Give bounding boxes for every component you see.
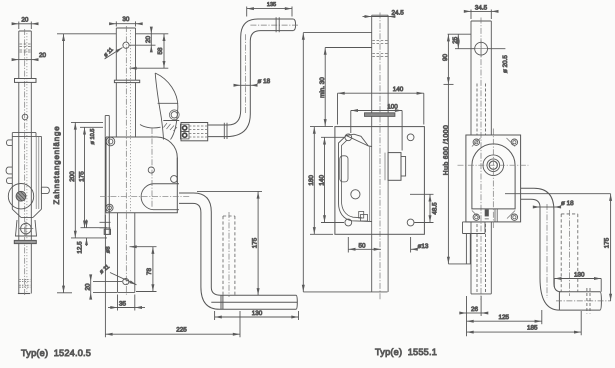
bar dotted line — [130, 30, 132, 212]
svg-text:30: 30 — [122, 16, 130, 23]
svg-text:Hub 600 /1000: Hub 600 /1000 — [443, 125, 450, 175]
label o20.5 — [488, 48, 506, 50]
crank rod lower horizontal — [208, 110, 251, 137]
screw o10.5 top — [106, 137, 115, 146]
boss circles — [483, 155, 504, 176]
dome corner cuts — [472, 138, 515, 219]
hole o20.5 — [475, 42, 488, 55]
rack centerline right — [480, 18, 482, 301]
hole o11 top — [123, 42, 129, 48]
svg-text:185: 185 — [527, 324, 538, 331]
label o18 right — [534, 206, 561, 208]
dim 175 (1524) — [257, 191, 259, 295]
svg-text:ø 10.5: ø 10.5 — [90, 129, 96, 145]
svg-text:ø8: ø8 — [106, 247, 112, 254]
folded crank hidden — [223, 216, 235, 295]
dim 90 — [447, 34, 449, 84]
svg-text:20: 20 — [85, 283, 92, 291]
rod centerline vertical — [245, 33, 247, 113]
hole o11 bottom — [123, 279, 129, 285]
top rod centerline — [250, 24, 298, 26]
dim 20 top (width of rack) — [14, 22, 38, 30]
dim 200 left — [71, 122, 107, 237]
flange A — [15, 79, 37, 83]
grip 1524 — [211, 295, 297, 309]
screw tab 1 — [6, 140, 12, 146]
stroke line right — [448, 84, 471, 264]
crank rod exit right (lower) — [179, 193, 211, 213]
dim 225 — [105, 215, 240, 337]
svg-text:135: 135 — [267, 2, 276, 8]
hole in bar A — [22, 114, 28, 120]
svg-text:130: 130 — [574, 272, 585, 279]
clamp lines below body — [100, 222, 111, 228]
svg-text:min. 30: min. 30 — [319, 77, 326, 98]
dim 130 right — [554, 279, 601, 292]
rack centerline 1555 — [379, 13, 381, 300]
rack bar dotted edge line — [26, 33, 28, 292]
crank rod vertical (up) — [241, 19, 261, 114]
corner screw TL — [473, 139, 479, 145]
svg-text:Zahnstangenlänge: Zahnstangenlänge — [52, 126, 61, 205]
svg-text:175: 175 — [252, 237, 259, 248]
screw tab 2 — [6, 167, 12, 174]
screw bottom with washer — [106, 204, 113, 211]
hole cross — [473, 41, 490, 58]
folded crank centerline right — [569, 210, 571, 296]
crank stub — [41, 187, 49, 193]
crank rod top horizontal — [258, 19, 296, 31]
dim 185 — [467, 296, 582, 336]
rack hidden teeth lines — [477, 84, 486, 293]
strip foot block — [104, 229, 110, 234]
plate hole TL — [345, 134, 352, 141]
clamp plate — [14, 240, 36, 243]
dim 20 bottom — [91, 275, 122, 299]
svg-text:90: 90 — [442, 54, 449, 62]
crank socket block — [180, 123, 207, 141]
corner screw BL — [473, 214, 479, 220]
bar through mechanism extra edges — [370, 147, 385, 222]
crank vertical right view — [540, 207, 561, 310]
svg-text:130: 130 — [252, 310, 263, 317]
dim 30 — [111, 21, 142, 26]
rod joint ticks — [224, 123, 227, 139]
lower bar below gearbox — [118, 213, 135, 293]
folded crank centerline — [228, 212, 230, 297]
fork end — [16, 220, 37, 236]
svg-text:20: 20 — [145, 36, 152, 44]
hidden pin lines top — [20, 44, 31, 52]
svg-text:175: 175 — [79, 171, 86, 182]
svg-text:48.5: 48.5 — [431, 202, 438, 215]
svg-text:Typ(e) 1524.0.5: Typ(e) 1524.0.5 — [21, 348, 91, 358]
rack bar side 1555 — [471, 21, 491, 294]
cam circle — [351, 190, 360, 199]
hook bottom hatch — [164, 123, 178, 131]
rack bar (side view) — [18, 31, 31, 294]
mounting plate 1555 — [335, 127, 425, 235]
ref line crank pivot — [197, 190, 262, 192]
hub knurled center — [16, 191, 26, 201]
svg-text:24.5: 24.5 — [392, 10, 405, 17]
grip cross pin hidden — [587, 288, 590, 314]
svg-text:225: 225 — [176, 327, 187, 334]
crank rod vertical down — [201, 212, 221, 309]
grip right view — [559, 292, 601, 310]
hub horizontal centerline — [100, 196, 190, 198]
rod axis reference line — [505, 193, 611, 195]
flat bar front — [116, 28, 135, 137]
dim 34.5 — [464, 10, 498, 20]
svg-text:58: 58 — [157, 47, 164, 55]
grip centerline — [556, 300, 611, 302]
svg-text:ø 20.5: ø 20.5 — [502, 55, 509, 73]
dim 175 left — [80, 127, 107, 227]
pinion housing — [388, 153, 406, 181]
svg-text:34.5: 34.5 — [475, 4, 488, 11]
svg-text:26: 26 — [471, 306, 479, 313]
svg-text:100: 100 — [387, 104, 398, 111]
dim min 30 — [325, 48, 372, 127]
dim 26 — [460, 296, 488, 316]
pawl detail — [359, 212, 368, 222]
dim 35 — [108, 295, 145, 311]
svg-text:Typ(e) 1555.1: Typ(e) 1555.1 — [375, 347, 437, 357]
dim 50 — [348, 237, 381, 253]
dim 140 left — [321, 137, 344, 222]
svg-text:125: 125 — [499, 314, 510, 321]
svg-text:ø 18: ø 18 — [561, 200, 574, 207]
folded crank hidden right — [561, 214, 578, 292]
Zahnstangenlaenge dimension line — [57, 34, 72, 293]
stroke reference line 1555 — [303, 33, 387, 292]
plate hole BL — [345, 219, 352, 226]
svg-text:25: 25 — [452, 36, 459, 44]
dim 12.5 — [86, 220, 88, 247]
stop collar — [365, 113, 395, 117]
top rod joint ticks — [276, 17, 279, 32]
dim 130 (1524 grip) — [215, 311, 299, 320]
crank rod exit right view — [521, 188, 554, 210]
top reference line — [57, 33, 116, 35]
bar centerline — [125, 26, 127, 296]
gearbox body front — [106, 137, 178, 213]
svg-text:20: 20 — [39, 52, 47, 59]
svg-text:200: 200 — [69, 171, 76, 182]
corner screw BR — [511, 214, 517, 220]
grub screw — [485, 209, 498, 222]
label o13 — [411, 237, 417, 253]
dim 20 side (leader at pin) — [12, 59, 38, 61]
svg-text:175: 175 — [603, 237, 610, 248]
gearbox housing side view — [12, 133, 41, 218]
cam mechanism outline — [339, 134, 372, 221]
cam hook outline — [140, 73, 179, 140]
dim 125 — [467, 310, 542, 324]
dim 48.5 — [410, 194, 434, 222]
label o18 (1524 crank) — [234, 84, 241, 86]
hidden pin rows 1555 — [372, 41, 387, 57]
dim 24.5 — [363, 16, 396, 18]
svg-text:180: 180 — [308, 175, 315, 186]
svg-text:ø 11: ø 11 — [99, 264, 111, 275]
foot bracket — [463, 222, 486, 264]
rack bar centerline — [24, 29, 26, 295]
small hole right — [171, 176, 178, 183]
svg-text:50: 50 — [358, 242, 366, 249]
dim 175 right — [610, 194, 612, 301]
gear centerline vertical — [151, 128, 153, 208]
label o11 bottom leader — [110, 273, 137, 285]
svg-text:140: 140 — [393, 86, 404, 93]
dim 100 — [351, 111, 402, 151]
plate hole TR — [407, 134, 414, 141]
svg-text:ø13: ø13 — [418, 243, 429, 250]
rack bar 1555 — [372, 15, 388, 292]
dim 78 — [130, 247, 157, 292]
cam roller circle — [169, 110, 179, 120]
svg-text:ø 18: ø 18 — [258, 78, 271, 85]
crank hub cylinder — [141, 184, 179, 210]
plate hole BR — [407, 219, 414, 226]
dim 180 — [310, 127, 333, 235]
hub boss circle — [8, 184, 33, 209]
rod centerline right — [546, 204, 548, 298]
svg-text:140: 140 — [318, 175, 325, 186]
dim 20 right — [130, 28, 156, 52]
svg-text:78: 78 — [146, 268, 153, 276]
svg-text:35: 35 — [119, 300, 127, 307]
flange B — [114, 80, 139, 82]
dome centerlines — [458, 164, 529, 166]
cam recess — [340, 156, 348, 182]
screw tab 3 — [6, 178, 12, 184]
svg-text:ø 11: ø 11 — [103, 47, 115, 59]
socket set screws — [183, 126, 187, 130]
svg-text:20: 20 — [21, 17, 29, 24]
corner screw TR — [511, 139, 517, 145]
dim 135 — [247, 7, 292, 17]
dome housing — [472, 144, 515, 209]
dim 140 top — [338, 93, 424, 124]
pivot circle with cross — [19, 222, 34, 236]
gearbox plate right — [466, 135, 521, 222]
label o11 top with leader — [105, 48, 123, 60]
gear center hole — [148, 167, 154, 173]
dotted rows lower bar — [20, 280, 31, 288]
dim 25 — [448, 34, 475, 49]
svg-text:12.5: 12.5 — [77, 241, 84, 254]
dim 58 right — [130, 34, 169, 68]
mounting strip left — [105, 116, 109, 235]
